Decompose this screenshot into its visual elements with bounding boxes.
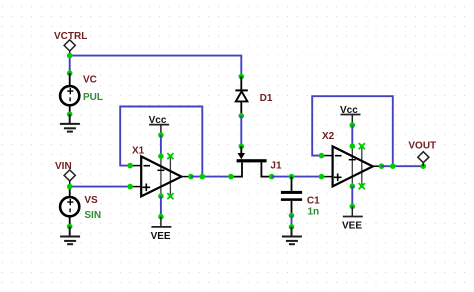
node X1 VEE pin dot lower xyxy=(158,214,164,220)
op-amp X2 feedback wire output to minus input xyxy=(312,96,393,166)
svg-text:VEE: VEE xyxy=(342,220,362,231)
wire X2 Vcc xyxy=(351,125,353,146)
source VS circle xyxy=(60,197,79,216)
svg-text:VEE: VEE xyxy=(151,231,171,242)
node X1 plus input dot xyxy=(127,184,133,190)
port VOUT pin stub xyxy=(422,163,424,167)
wire J1 to C1 to X2 plus input xyxy=(272,176,322,178)
wire X1 output to J1 xyxy=(191,176,231,178)
wire VCTRL top horizontal xyxy=(70,56,242,77)
wire C1 to ground xyxy=(291,216,293,227)
transistor J1 gate arrow xyxy=(238,153,245,159)
wire VCTRL to VC xyxy=(69,56,71,74)
op-amp X1 plus input pin stub xyxy=(130,186,141,188)
transistor J1 gate pin dot xyxy=(239,144,245,150)
wire VIN to X1 plus input xyxy=(70,186,130,188)
op-amp X2 minus input marker xyxy=(335,155,342,157)
capacitor C1 bottom lead xyxy=(291,201,293,216)
wire X2 output to VOUT xyxy=(382,165,424,167)
node C1 bottom pin dot xyxy=(289,213,295,219)
op-amp X1 internal pin line Vcc-VEE xyxy=(160,156,162,196)
transistor J1 drain lead xyxy=(261,162,271,176)
node J1 source pin dot xyxy=(228,174,234,180)
power VEE bar X2 xyxy=(343,216,363,218)
transistor J1 source lead xyxy=(231,162,242,176)
wire X1 Vcc xyxy=(160,135,162,156)
op-amp X2 minus input pin stub xyxy=(322,155,333,157)
node X1 minus input dot xyxy=(127,163,133,169)
svg-text:PUL: PUL xyxy=(83,92,103,103)
node C1 ground pin dot xyxy=(289,224,295,230)
wire VIN to VS xyxy=(69,187,71,198)
svg-text:1n: 1n xyxy=(308,206,320,217)
source VC circle xyxy=(60,86,79,105)
op-amp X1 plus input marker xyxy=(143,184,151,192)
op-amp X1 triangle xyxy=(141,156,181,196)
port VOUT diamond xyxy=(418,152,429,163)
transistor J1 gate lead xyxy=(240,146,242,155)
diode D1 triangle xyxy=(236,91,248,101)
wire X1 VEE xyxy=(160,196,162,217)
node VIN junction dot xyxy=(67,184,73,190)
op-amp X2 internal pin line Vcc-VEE xyxy=(351,146,353,186)
node VCTRL junction dot xyxy=(67,53,73,59)
power VEE stub X2 xyxy=(351,206,353,216)
node X2 Vcc pin dot upper xyxy=(350,122,356,128)
op-amp X1 minus input pin stub xyxy=(130,165,141,167)
ground below VC xyxy=(60,114,80,131)
node VOUT junction dot xyxy=(420,163,426,169)
svg-text:D1: D1 xyxy=(260,93,273,104)
diode D1 anode lead xyxy=(240,101,242,115)
node J1 drain pin dot xyxy=(269,174,275,180)
svg-text:X1: X1 xyxy=(132,145,145,156)
node X1 output feedback junction dot xyxy=(200,174,206,180)
svg-text:VS: VS xyxy=(84,195,98,206)
wire X2 VEE xyxy=(351,186,353,206)
node X1 NC pin X bottom xyxy=(167,193,173,199)
node D1 anode pin dot xyxy=(239,113,245,119)
source VC minus bar xyxy=(69,97,71,101)
source VC bottom lead xyxy=(69,105,71,114)
capacitor C1 bottom plate xyxy=(281,198,302,201)
op-amp X2 triangle xyxy=(333,146,373,186)
source VS plus sign xyxy=(67,199,73,205)
node X1 Vcc pin dot upper xyxy=(158,132,164,138)
power Vcc bar X1 xyxy=(149,124,169,126)
capacitor C1 top lead xyxy=(291,177,293,191)
node X2 output feedback junction dot xyxy=(390,163,396,169)
power Vcc stub X1 xyxy=(160,125,162,136)
op-amp X2 internal pin line NC xyxy=(361,146,363,186)
node X2 NC pin X bottom xyxy=(359,183,365,189)
ground below C1 xyxy=(282,227,302,244)
diode D1 top pin dot xyxy=(239,74,245,80)
node X1 NC pin X top xyxy=(167,153,173,159)
power VEE stub X1 xyxy=(160,217,162,227)
op-amp X2 plus input marker xyxy=(334,174,342,182)
svg-text:VOUT: VOUT xyxy=(408,141,436,152)
svg-text:J1: J1 xyxy=(270,161,282,172)
node X2 NC pin X top xyxy=(359,143,365,149)
diode D1 cathode lead xyxy=(240,77,242,91)
port VCTRL diamond xyxy=(64,40,75,51)
source VS minus bar xyxy=(69,208,71,212)
port VIN pin stub xyxy=(69,181,71,187)
svg-text:X2: X2 xyxy=(322,131,335,142)
node X2 VEE pin dot lower xyxy=(350,204,356,210)
node C1 top junction dot xyxy=(289,174,295,180)
source VC plus sign xyxy=(67,88,73,94)
diode D1 cathode bar xyxy=(235,89,247,91)
node X2 output pin dot xyxy=(379,163,385,169)
node X1 Vcc pin dot at triangle xyxy=(158,153,164,159)
node X1 VEE pin dot at triangle xyxy=(158,193,164,199)
node VC minus pin dot xyxy=(67,111,73,117)
svg-text:SIN: SIN xyxy=(84,210,101,221)
port VCTRL pin stub xyxy=(69,51,71,56)
capacitor C1 top plate xyxy=(281,191,302,194)
source VS bottom lead xyxy=(69,216,71,227)
svg-text:VC: VC xyxy=(83,74,97,85)
power VEE bar X1 xyxy=(151,226,171,228)
op-amp X1 minus input marker xyxy=(144,165,151,167)
op-amp X1 feedback wire output to minus input xyxy=(120,107,202,177)
op-amp X2 positive supply marker xyxy=(349,159,356,161)
node X2 Vcc pin dot at triangle xyxy=(350,143,356,149)
node X2 plus input dot xyxy=(319,174,325,180)
node X2 minus input dot xyxy=(319,153,325,159)
transistor J1 channel bar xyxy=(237,159,267,162)
port VIN diamond xyxy=(64,170,75,181)
op-amp X1 positive supply marker xyxy=(157,169,164,171)
node X2 VEE pin dot at triangle xyxy=(350,183,356,189)
op-amp X1 output pin stub xyxy=(181,176,191,178)
node X1 output pin dot xyxy=(188,174,194,180)
svg-text:C1: C1 xyxy=(307,195,320,206)
power Vcc bar X2 xyxy=(341,114,361,116)
source VC top lead xyxy=(69,73,71,86)
node VC plus pin dot xyxy=(67,70,73,76)
wire D1 to J1 gate xyxy=(240,116,242,147)
op-amp X1 internal pin line NC xyxy=(169,156,171,196)
op-amp X2 plus input pin stub xyxy=(322,176,333,178)
node VS minus pin dot xyxy=(67,224,73,230)
op-amp X2 output pin stub xyxy=(373,165,382,167)
power Vcc stub X2 xyxy=(351,115,353,126)
ground below VS xyxy=(60,227,80,245)
